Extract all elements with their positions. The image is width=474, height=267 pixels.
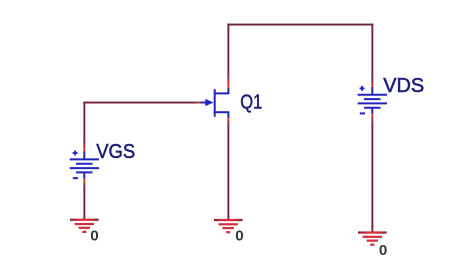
svg-text:VDS: VDS — [383, 74, 424, 97]
wire: VDS to right ground — [371, 124, 373, 233]
svg-text:VGS: VGS — [96, 140, 135, 163]
wire: VGS to left ground — [83, 187, 85, 221]
wire: VGS top pin (red) — [83, 144, 85, 152]
wire: Q1 source down to middle ground — [227, 125, 229, 221]
wire: left vertical drop from top wire to Q1 drain — [227, 24, 229, 73]
wire: top horizontal from Q1 drain to VDS — [227, 24, 373, 26]
battery VGS minus sign — [73, 177, 78, 179]
transistor Q1 gate arrow — [205, 99, 213, 106]
transistor Q1 — [200, 88, 228, 118]
battery VDS — [358, 87, 387, 114]
svg-text:Q1: Q1 — [240, 90, 262, 113]
wire: Q1 drain pin (red) — [227, 73, 229, 90]
ground (right, node 0) — [358, 231, 387, 245]
wire: VGS bottom pin (red) — [83, 178, 85, 187]
wire: VDS bottom pin (red) — [371, 113, 373, 124]
wire: gate horizontal from VGS corner to Q1 gate — [83, 102, 193, 104]
battery VDS minus sign — [360, 112, 365, 114]
wire: left vertical from gate corner down to VGS — [83, 102, 85, 144]
wire: Q1 source pin (red) — [227, 117, 229, 125]
ground (middle, node 0) — [214, 219, 243, 233]
svg-text:0: 0 — [235, 228, 243, 245]
svg-text:0: 0 — [379, 242, 387, 259]
wire: VDS top pin (red) — [371, 79, 373, 88]
svg-text:0: 0 — [90, 227, 98, 244]
wire: Q1 gate pin (red) — [193, 102, 202, 104]
battery VGS plus sign — [73, 151, 78, 156]
battery VDS plus sign — [360, 86, 365, 91]
battery VGS — [70, 151, 99, 178]
ground (left, node 0) — [70, 219, 99, 233]
wire: right vertical drop from top wire to VDS + — [371, 24, 373, 80]
